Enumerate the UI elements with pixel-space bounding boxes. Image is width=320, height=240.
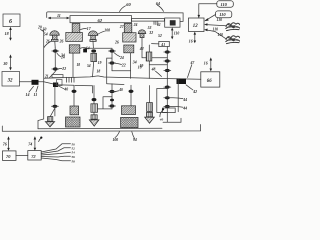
svg-text:54: 54: [87, 64, 91, 68]
svg-text:40: 40: [63, 88, 68, 92]
column D wire: [148, 45, 150, 79]
wire rung DE2: [149, 64, 167, 66]
leader 22 C: [115, 63, 126, 67]
label 21: [52, 75, 63, 78]
label 26 top: [45, 40, 50, 44]
filter D (small cylinder): [146, 52, 152, 61]
comb 61 (ticks): [154, 21, 161, 27]
svg-text:16: 16: [204, 61, 208, 65]
svg-text:19: 19: [140, 64, 144, 68]
valve blob A2: [52, 67, 59, 70]
svg-text:14: 14: [26, 92, 30, 97]
wire hatch2L down: [72, 53, 74, 77]
svg-text:56: 56: [72, 155, 76, 159]
wire rung DE1: [152, 57, 168, 59]
valve blob C2: [109, 61, 116, 64]
fan wire 5: [41, 158, 75, 163]
wire scribble1 to ECU: [204, 23, 226, 26]
hatch block 1L (master cyl): [66, 33, 83, 42]
leader 42: [188, 61, 196, 77]
svg-text:40: 40: [118, 88, 123, 92]
svg-text:76: 76: [3, 141, 7, 146]
leader 22 A: [58, 67, 66, 71]
svg-text:52: 52: [72, 146, 76, 150]
svg-text:26: 26: [114, 40, 119, 44]
left hatch vertical: [72, 85, 77, 106]
column A wire: [50, 48, 56, 78]
label 94 leader: [132, 132, 137, 142]
inner box left edge: [54, 87, 56, 116]
label 100 leader: [113, 132, 120, 143]
valve blob E6: [164, 105, 171, 108]
pump F3 cylinder: [147, 103, 153, 113]
arrow 110a (double-headed vertical under box 65): [158, 27, 179, 39]
svg-text:30: 30: [2, 61, 7, 66]
arrow 16b (double-headed above box 66): [204, 57, 212, 71]
label 40 mid leader: [115, 88, 123, 92]
svg-text:11: 11: [57, 13, 61, 18]
fan wire 4: [41, 155, 75, 159]
hatch block 2L: [60, 45, 90, 58]
svg-text:58: 58: [72, 159, 76, 163]
arrowhead into ECU top: [198, 15, 201, 18]
svg-text:100: 100: [113, 138, 119, 142]
box 72: [28, 151, 41, 160]
svg-text:24: 24: [60, 56, 65, 60]
box 66: [201, 72, 220, 87]
svg-text:34: 34: [132, 61, 137, 65]
hatch block 1R: [123, 33, 136, 42]
label 20: [37, 26, 44, 32]
svg-text:24: 24: [119, 56, 124, 60]
svg-text:18: 18: [97, 70, 101, 74]
comb under box62 right: [119, 23, 138, 33]
valve blob C1: [109, 49, 116, 52]
wire V1 curve to left rail: [44, 41, 52, 48]
svg-text:42: 42: [192, 90, 197, 94]
leader 46: [171, 106, 187, 110]
svg-text:21: 21: [44, 74, 49, 78]
valve V3 (dome): [138, 26, 153, 58]
label 64 leader: [156, 1, 164, 12]
svg-text:41: 41: [160, 43, 165, 47]
svg-text:53: 53: [148, 26, 152, 30]
leader 44: [171, 98, 187, 102]
svg-text:66: 66: [207, 79, 212, 84]
leader dot 47: [159, 108, 164, 121]
svg-text:74: 74: [28, 141, 32, 146]
box 62 (reservoir): [70, 16, 132, 23]
wire junction to corner: [44, 82, 54, 84]
svg-text:62: 62: [98, 18, 103, 23]
pump F1 funnel: [45, 122, 54, 127]
fan wire 1: [41, 142, 75, 152]
valve blob C3: [109, 90, 116, 93]
svg-text:26: 26: [45, 40, 50, 44]
arrow 18 (double-headed vertical): [5, 27, 12, 41]
box 70: [3, 151, 17, 161]
svg-text:6: 6: [9, 19, 12, 25]
valve blob E1: [164, 50, 171, 53]
wire rbox2 to ECU: [204, 15, 215, 22]
svg-text:19: 19: [98, 61, 102, 65]
column C wire: [111, 48, 113, 71]
svg-text:110: 110: [174, 32, 180, 36]
right hatch vertical: [129, 85, 134, 106]
pump F1 cap: [48, 108, 55, 121]
svg-text:110: 110: [218, 33, 224, 37]
svg-text:110: 110: [219, 12, 226, 17]
svg-text:44: 44: [182, 107, 187, 111]
wire 70-72: [16, 155, 28, 157]
svg-text:24: 24: [133, 23, 138, 27]
wire box32 to node: [20, 81, 44, 83]
label 41: [152, 41, 170, 47]
label 60 leader: [120, 2, 132, 12]
leader 24 C: [114, 53, 124, 60]
wire ECU to rbox1: [199, 4, 217, 18]
svg-text:110: 110: [217, 18, 223, 22]
valve blob E5: [164, 96, 171, 99]
hatch block 2R: [114, 40, 144, 69]
svg-text:32: 32: [7, 78, 14, 83]
wire hatch2R down: [130, 53, 132, 79]
svg-text:64: 64: [156, 1, 160, 6]
bus wire (main horizontal): [44, 76, 201, 79]
svg-text:11: 11: [34, 92, 38, 97]
wire scribble2 to ECU: [204, 29, 226, 39]
svg-text:32: 32: [148, 31, 153, 35]
wire C lower network: [96, 97, 113, 109]
valve blob C4: [109, 104, 116, 107]
rounded box 110-2: [216, 11, 232, 18]
leader 40: [59, 86, 68, 92]
arrow 74 (double-headed): [28, 136, 36, 150]
pump F2 cylinder: [91, 86, 98, 115]
svg-text:26: 26: [59, 40, 64, 44]
svg-text:22: 22: [61, 67, 66, 71]
svg-text:18: 18: [77, 63, 81, 67]
valve V1 (dome): [43, 28, 64, 48]
svg-text:52: 52: [158, 34, 162, 38]
valve V2 (dome): [88, 29, 110, 49]
svg-text:61: 61: [157, 23, 161, 27]
hatch box big L (accumulator): [66, 117, 81, 127]
pipe 63: [132, 19, 165, 22]
pump F3 cap: [147, 112, 153, 116]
box 65 (sensor block): [165, 18, 180, 27]
svg-text:54: 54: [44, 32, 48, 36]
node square 38 (black junction): [32, 80, 39, 85]
wire rung 47: [85, 47, 112, 49]
component at corner: [57, 80, 63, 86]
fan wire 3: [41, 151, 75, 155]
pump F3 funnel: [145, 117, 155, 123]
outer bottom line: [2, 125, 200, 132]
wheel scribble 1: [226, 23, 240, 31]
wheel scribble 2: [226, 36, 240, 44]
fan wire 2: [41, 146, 75, 153]
arrow 16a (double-headed under ECU): [189, 32, 196, 44]
leader 24 A: [57, 53, 65, 59]
leader 11: [34, 86, 39, 97]
node square 40 (black): [53, 83, 58, 88]
svg-text:108: 108: [104, 29, 110, 33]
hatch box small R: [122, 106, 136, 115]
valve blob E2: [164, 59, 171, 62]
svg-text:40: 40: [159, 118, 164, 122]
hatch box big R (accumulator): [121, 117, 138, 127]
wire 60 (top rail with corner): [47, 12, 183, 22]
svg-text:16: 16: [189, 39, 193, 43]
svg-text:18: 18: [5, 31, 9, 36]
svg-text:48: 48: [151, 68, 156, 72]
node square 42 (black): [177, 79, 187, 85]
label 48: [151, 68, 162, 77]
pump F2 funnel: [89, 120, 99, 126]
small rect 46b: [163, 108, 176, 113]
svg-text:44: 44: [182, 98, 187, 102]
valve blob F (left col): [51, 105, 58, 108]
box 12 (ECU): [189, 18, 205, 32]
leader 14: [26, 86, 34, 97]
inner box right edge: [177, 79, 179, 112]
inner box top edge: [55, 84, 124, 93]
arrow 15 (double-headed horizontal): [48, 13, 70, 20]
svg-text:110: 110: [221, 2, 228, 7]
valve blob E4: [164, 86, 171, 89]
arrow 30 (double-headed vertical): [2, 54, 11, 70]
svg-text:12: 12: [193, 24, 198, 29]
svg-text:94: 94: [133, 138, 137, 142]
inner bottom line: [38, 118, 181, 129]
rounded box 110-1: [217, 1, 234, 7]
column E wire: [166, 47, 168, 123]
svg-text:20: 20: [37, 26, 42, 30]
comb ticks mid: [67, 77, 75, 82]
node square B (junction): [83, 49, 87, 53]
sub box right: [157, 89, 168, 113]
pump F2 cap: [91, 115, 97, 119]
leader dot 96: [39, 137, 43, 142]
svg-text:22: 22: [121, 63, 126, 67]
box 6 (pedal unit): [3, 14, 20, 27]
arrow 76 (double-headed): [3, 136, 10, 151]
valve blob E3: [164, 69, 171, 72]
valve blob A1: [52, 49, 59, 52]
filter B (small cylinder): [91, 49, 97, 77]
comb under box62 left: [72, 24, 91, 33]
svg-text:42: 42: [139, 47, 144, 51]
long left vertical wire: [38, 29, 44, 129]
hatch box small L: [70, 106, 79, 115]
box 32 (booster): [2, 72, 20, 87]
